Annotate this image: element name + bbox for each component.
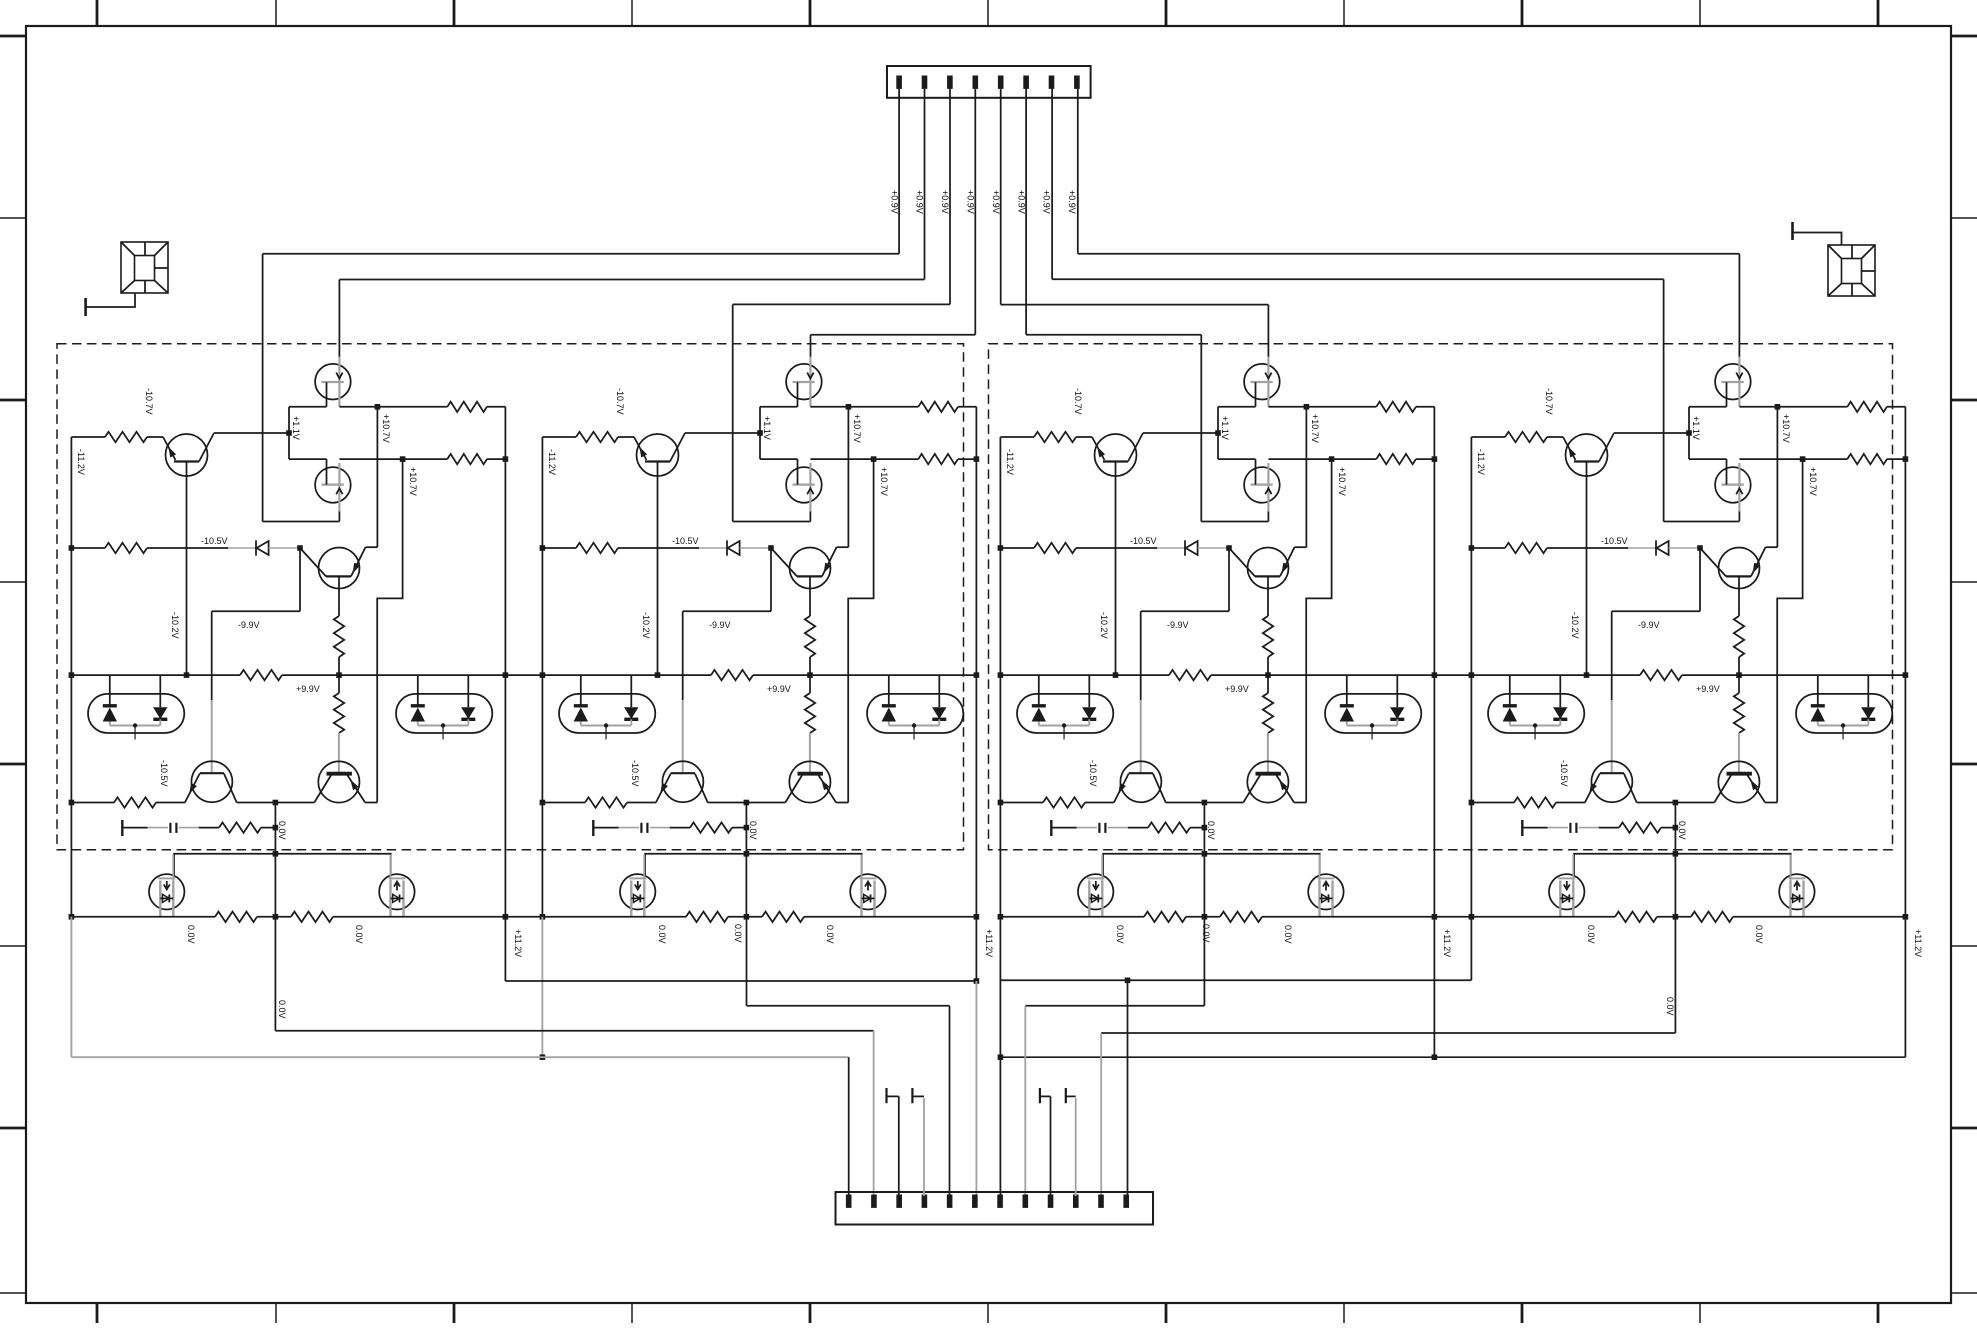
svg-text:0.0V: 0.0V: [354, 925, 364, 944]
terminal T1 block 4: [1521, 820, 1523, 836]
transistor Q2 block 1: [319, 548, 360, 589]
wire Q1 base -10.2V: [657, 462, 659, 676]
dual diode D3 block 1: [396, 694, 492, 733]
svg-text:+1.1V: +1.1V: [762, 416, 772, 440]
dual diode D3 block 4: [1796, 694, 1892, 733]
wire left bus -11.2V block 1: [70, 437, 72, 917]
wire row +9.9V block 1: [71, 674, 240, 676]
wire block1 bus drop: [70, 917, 72, 1057]
node +1.1V cell block 4: [1688, 407, 1690, 459]
wire Q2 base: [1738, 576, 1740, 616]
wire pad P1 stub: [86, 293, 135, 307]
jfet U2 block 4: [1715, 467, 1751, 503]
svg-text:0.0V: 0.0V: [1677, 821, 1687, 840]
svg-text:+10.7V: +10.7V: [381, 414, 391, 443]
mosfet M1 block 4: [1549, 874, 1584, 909]
wire 0.0V vertical block 3: [1203, 803, 1205, 917]
wire +10.7V branch B: [848, 459, 873, 802]
terminal T1 block 1: [121, 820, 123, 836]
wire block4 0.0V to pin11: [1674, 917, 1676, 1033]
wire Q3 base lead: [1611, 611, 1613, 700]
wire pin12 net: [1000, 979, 1471, 981]
wire Q1 collector to +1.1V node: [685, 432, 760, 434]
transistor Q4 block 2: [789, 761, 830, 802]
bond pad P2: [1828, 245, 1875, 296]
dual diode D3 block 2: [867, 694, 963, 733]
wire row lower bus block 1: [71, 916, 215, 918]
transistor Q2 block 4: [1719, 548, 1760, 589]
transistor Q3 block 4: [1591, 761, 1632, 802]
wire left bus -11.2V block 3: [999, 437, 1001, 917]
svg-text:-10.7V: -10.7V: [144, 388, 154, 415]
svg-text:-9.9V: -9.9V: [238, 620, 260, 630]
resistor R2 block 1: [71, 547, 105, 549]
resistor R10 block 4: [1615, 912, 1657, 922]
svg-text:-10.5V: -10.5V: [1559, 760, 1569, 787]
svg-text:+10.7V: +10.7V: [1310, 414, 1320, 443]
resistor R7 block 4: [1738, 675, 1740, 693]
pin 9 connector J2: [1048, 1195, 1054, 1208]
svg-text:0.0V: 0.0V: [657, 925, 667, 944]
diode D1 block 1: [255, 540, 257, 555]
wire Q2 base: [338, 576, 340, 616]
svg-text:0.0V: 0.0V: [1665, 997, 1675, 1016]
svg-text:-10.2V: -10.2V: [1570, 612, 1580, 639]
svg-text:-9.9V: -9.9V: [1638, 620, 1660, 630]
svg-text:-11.2V: -11.2V: [76, 449, 86, 475]
pin 5 connector J1: [998, 76, 1004, 89]
wire -9.9V node: [1228, 548, 1230, 611]
svg-text:+10.7V: +10.7V: [1808, 467, 1818, 496]
svg-text:0.0V: 0.0V: [1586, 925, 1596, 944]
resistor R6 block 1: [240, 670, 282, 680]
wire Q2 emitter to +10.7V: [1295, 546, 1307, 548]
wire -9.9V node: [1699, 548, 1701, 611]
wire +11.2V link: [504, 917, 506, 981]
wire Q2 base: [1267, 576, 1269, 616]
svg-text:+0.9V: +0.9V: [1067, 190, 1077, 214]
resistor R8 block 3: [1043, 797, 1085, 807]
svg-text:+10.7V: +10.7V: [852, 414, 862, 443]
svg-text:-10.5V: -10.5V: [159, 760, 169, 787]
resistor R8 block 2: [585, 797, 627, 807]
transistor Q3 block 2: [662, 761, 703, 802]
resistor R3 block 3: [1376, 402, 1416, 412]
resistor R1 block 3: [1000, 436, 1034, 438]
pin 8 connector J2: [1023, 1195, 1029, 1208]
wire row lower bus block 2: [542, 916, 686, 918]
jfet U2 block 2: [786, 467, 822, 503]
resistor R8 block 1: [114, 797, 156, 807]
terminal stub T3: [911, 1088, 913, 1103]
connector J1 (top): [887, 66, 1091, 98]
svg-text:+10.7V: +10.7V: [1337, 467, 1347, 496]
svg-text:0.0V: 0.0V: [825, 925, 835, 944]
dual diode D3 block 3: [1325, 694, 1421, 733]
wire Q3 base lead: [211, 611, 213, 700]
resistor R9 block 3: [1148, 822, 1190, 832]
svg-text:-10.5V: -10.5V: [630, 760, 640, 787]
svg-text:+9.9V: +9.9V: [296, 684, 320, 694]
mosfet M2 block 2: [850, 874, 885, 909]
jfet U1 block 4: [1715, 364, 1751, 400]
wire row lower bus block 3: [1000, 916, 1144, 918]
wire left bus -11.2V block 4: [1470, 437, 1472, 917]
svg-text:-10.7V: -10.7V: [1544, 388, 1554, 415]
pin 5 connector J2: [947, 1195, 953, 1208]
resistor R4 block 1: [447, 454, 487, 464]
terminal stub T2: [885, 1088, 887, 1103]
svg-text:+0.9V: +0.9V: [889, 190, 899, 214]
wire drain drop U1 block1: [338, 280, 340, 357]
svg-text:-10.5V: -10.5V: [1088, 760, 1098, 787]
wire drain drop U1 block4: [1738, 254, 1740, 357]
wire row lower filler: [1434, 916, 1471, 918]
svg-text:0.0V: 0.0V: [186, 925, 196, 944]
resistor R9 block 1: [219, 822, 261, 832]
wire drain drop U1 block2: [810, 335, 812, 357]
wire right bus to pin6: [975, 917, 977, 981]
svg-text:+9.9V: +9.9V: [1696, 684, 1720, 694]
svg-text:+1.1V: +1.1V: [1220, 416, 1230, 440]
wire gate feed pin 6: [1025, 89, 1027, 335]
wire ground rail left: [71, 1056, 848, 1058]
wire drain drop U1 block3: [1267, 305, 1269, 357]
transistor Q4 block 3: [1247, 761, 1288, 802]
wire Q1 collector to +1.1V node: [1143, 432, 1218, 434]
transistor Q1 block 3: [1095, 434, 1137, 476]
pin 4 connector J1: [973, 76, 979, 89]
wire rail to pin1: [848, 1057, 850, 1196]
terminal stub T4: [1039, 1088, 1041, 1103]
pin 3 connector J2: [896, 1195, 902, 1208]
resistor R7 block 3: [1267, 675, 1269, 693]
wire Q2 emitter to +10.7V: [1766, 546, 1778, 548]
resistor R6 block 4: [1640, 670, 1682, 680]
wire block2 0.0V to pin5: [746, 917, 748, 1006]
diode D1 block 3: [1184, 540, 1186, 555]
dashed enclosure group 2: [989, 344, 1893, 850]
svg-text:-10.2V: -10.2V: [170, 612, 180, 639]
terminal T1 block 2: [592, 820, 594, 836]
svg-text:+9.9V: +9.9V: [1225, 684, 1249, 694]
wire block3 bus drop to pin7: [999, 917, 1001, 1057]
wire gate feed pin 1: [898, 89, 900, 254]
pin 10 connector J2: [1073, 1195, 1079, 1208]
resistor R11 block 4: [1691, 912, 1733, 922]
mosfet M1 block 1: [149, 874, 184, 909]
dual diode D2 block 3: [1017, 694, 1113, 733]
svg-text:0.0V: 0.0V: [1201, 924, 1211, 943]
pin 1 connector J2: [846, 1195, 852, 1208]
resistor R9 block 4: [1619, 822, 1661, 832]
wire gate feed pin 2: [924, 89, 926, 280]
svg-text:-10.2V: -10.2V: [641, 612, 651, 639]
svg-text:+0.9V: +0.9V: [940, 190, 950, 214]
svg-text:0.0V: 0.0V: [1754, 925, 1764, 944]
dual diode D2 block 1: [88, 694, 184, 733]
resistor R7 block 1: [338, 675, 340, 693]
wire row +9.9V filler: [1434, 674, 1471, 676]
resistor R5 block 4: [1734, 616, 1744, 657]
pin 6 connector J1: [1023, 76, 1029, 89]
resistor R3 block 1: [447, 402, 487, 412]
wire gate feed pin 5: [1000, 89, 1002, 305]
wire 0.0V vertical block 1: [274, 803, 276, 917]
resistor R6 block 3: [1169, 670, 1211, 680]
svg-text:-11.2V: -11.2V: [1005, 449, 1015, 475]
wire pad P2 stub: [1793, 233, 1842, 246]
svg-text:+0.9V: +0.9V: [1042, 190, 1052, 214]
svg-text:-9.9V: -9.9V: [1167, 620, 1189, 630]
svg-text:-10.5V: -10.5V: [672, 536, 699, 546]
capacitor C1 block 1: [169, 823, 171, 833]
svg-text:-10.7V: -10.7V: [615, 388, 625, 415]
svg-text:+0.9V: +0.9V: [1016, 190, 1026, 214]
pin 12 connector J2: [1123, 1195, 1129, 1208]
resistor R10 block 1: [215, 912, 257, 922]
wire output loop block 3: [1103, 854, 1320, 875]
svg-text:-10.5V: -10.5V: [1130, 536, 1157, 546]
svg-text:+0.9V: +0.9V: [966, 190, 976, 214]
svg-text:+10.7V: +10.7V: [1781, 414, 1791, 443]
svg-text:0.0V: 0.0V: [277, 821, 287, 840]
wire +10.7V branch B: [377, 459, 402, 802]
wire output loop block 2: [645, 854, 862, 875]
node +1.1V cell block 1: [288, 407, 290, 459]
svg-text:+1.1V: +1.1V: [1691, 416, 1701, 440]
wire row 0.0V base block 1: [71, 802, 114, 804]
wire output loop block 4: [1574, 854, 1791, 875]
pin 4 connector J2: [922, 1195, 928, 1208]
resistor R4 block 2: [918, 454, 958, 464]
wire row +9.9V block 4: [1471, 674, 1640, 676]
svg-text:0.0V: 0.0V: [277, 1000, 287, 1019]
dual diode D2 block 2: [559, 694, 655, 733]
resistor R6 block 2: [711, 670, 753, 680]
wire row 0.0V base block 4: [1471, 802, 1514, 804]
wire left bus -11.2V block 2: [541, 437, 543, 917]
mosfet M2 block 3: [1308, 874, 1343, 909]
jfet U1 block 2: [786, 364, 822, 400]
diode D1 block 4: [1655, 540, 1657, 555]
resistor R5 block 3: [1263, 616, 1273, 657]
pin 8 connector J1: [1074, 76, 1080, 89]
transistor Q1 block 4: [1566, 434, 1608, 476]
wire row lower bus block 4: [1471, 916, 1615, 918]
wire drain drop U2 block3: [1200, 335, 1202, 522]
wire drain drop U2 block2: [732, 304, 734, 521]
wire output loop block 1: [174, 854, 391, 875]
resistor R1 block 2: [542, 436, 576, 438]
transistor Q2 block 3: [1248, 548, 1289, 589]
capacitor C1 block 2: [640, 823, 642, 833]
wire group2 right bus: [1904, 917, 1906, 1057]
mosfet M2 block 1: [379, 874, 414, 909]
wire Q3 base lead: [682, 611, 684, 700]
transistor Q1 block 2: [637, 434, 679, 476]
wire block4 bus drop: [1470, 917, 1472, 981]
wire gate feed pin 3: [949, 89, 951, 305]
pin 2 connector J1: [922, 76, 928, 89]
svg-text:+0.9V: +0.9V: [991, 190, 1001, 214]
transistor Q2 block 2: [790, 548, 831, 589]
wire -9.9V node: [299, 548, 301, 611]
wire ground rail right: [1000, 1056, 1905, 1058]
svg-text:+1.1V: +1.1V: [291, 416, 301, 440]
wire Q1 base -10.2V: [1115, 462, 1117, 676]
wire block3 0.0V to pin8: [1203, 917, 1205, 1006]
wire right rail vertical block 3: [1433, 407, 1435, 917]
resistor R10 block 2: [686, 912, 728, 922]
pin 2 connector J2: [871, 1195, 877, 1208]
wire gate feed pin 7: [1051, 89, 1053, 279]
svg-text:+0.9V: +0.9V: [915, 190, 925, 214]
diode D1 block 2: [726, 540, 728, 555]
wire drain drop U2 block1: [262, 254, 264, 522]
jfet U1 block 3: [1244, 364, 1280, 400]
resistor R3 block 4: [1847, 402, 1887, 412]
wire block2 bus drop: [541, 917, 543, 1057]
wire row 0.0V base block 2: [542, 802, 585, 804]
wire Q2 base: [809, 576, 811, 616]
pin 6 connector J2: [972, 1195, 978, 1208]
wire Q2 emitter to +10.7V: [837, 546, 849, 548]
transistor Q1 block 1: [166, 434, 208, 476]
resistor R2 block 3: [1000, 547, 1034, 549]
svg-text:0.0V: 0.0V: [1283, 925, 1293, 944]
pin 3 connector J1: [947, 76, 953, 89]
wire right bus drop: [1433, 917, 1435, 1057]
svg-text:+9.9V: +9.9V: [767, 684, 791, 694]
wire right rail vertical block 2: [975, 407, 977, 917]
resistor R3 block 2: [918, 402, 958, 412]
mosfet M2 block 4: [1779, 874, 1814, 909]
resistor R9 block 2: [690, 822, 732, 832]
node +1.1V cell block 3: [1217, 407, 1219, 459]
svg-text:-11.2V: -11.2V: [547, 449, 557, 475]
wire row lower filler: [505, 916, 542, 918]
svg-text:-10.2V: -10.2V: [1099, 612, 1109, 639]
svg-text:+10.7V: +10.7V: [879, 467, 889, 496]
capacitor C1 block 3: [1098, 823, 1100, 833]
jfet U1 block 1: [315, 364, 351, 400]
resistor R4 block 3: [1376, 454, 1416, 464]
wire Q1 collector to +1.1V node: [214, 432, 289, 434]
bond pad P1: [121, 242, 168, 293]
wire Q3 base lead: [1140, 611, 1142, 700]
resistor R11 block 3: [1220, 912, 1262, 922]
wire block1 0.0V to pin2: [274, 917, 276, 1031]
resistor R2 block 2: [542, 547, 576, 549]
pin 11 connector J2: [1098, 1195, 1104, 1208]
dual diode D2 block 4: [1488, 694, 1584, 733]
svg-text:0.0V: 0.0V: [748, 821, 758, 840]
wire Q1 base -10.2V: [186, 462, 188, 676]
svg-text:-10.5V: -10.5V: [1601, 536, 1628, 546]
jfet U2 block 3: [1244, 467, 1280, 503]
svg-text:0.0V: 0.0V: [1206, 821, 1216, 840]
connector J2 (bottom): [836, 1192, 1154, 1225]
wire 0.0V vertical block 4: [1674, 803, 1676, 917]
wire drain drop U2 block4: [1663, 279, 1665, 521]
wire right rail vertical block 1: [504, 407, 506, 917]
wire -9.9V node: [770, 548, 772, 611]
transistor Q4 block 4: [1718, 761, 1759, 802]
dashed enclosure group 1: [57, 344, 964, 850]
svg-text:+10.7V: +10.7V: [408, 467, 418, 496]
svg-text:+11.2V: +11.2V: [984, 929, 994, 957]
jfet U2 block 1: [315, 467, 351, 503]
svg-text:+11.2V: +11.2V: [1913, 929, 1923, 957]
wire gate feed pin 4: [974, 89, 976, 335]
wire row +9.9V filler: [505, 674, 542, 676]
resistor R11 block 1: [291, 912, 333, 922]
mosfet M1 block 2: [620, 874, 655, 909]
wire gate feed pin 8: [1077, 89, 1079, 254]
svg-text:-11.2V: -11.2V: [1476, 449, 1486, 475]
node +1.1V cell block 2: [759, 407, 761, 459]
wire Q1 collector to +1.1V node: [1614, 432, 1689, 434]
svg-text:-9.9V: -9.9V: [709, 620, 731, 630]
wire Q2 emitter to +10.7V: [366, 546, 378, 548]
wire row +9.9V block 3: [1000, 674, 1169, 676]
svg-text:0.0V: 0.0V: [1115, 925, 1125, 944]
wire 0.0V vertical block 2: [745, 803, 747, 917]
pin 7 connector J1: [1049, 76, 1055, 89]
svg-text:+11.2V: +11.2V: [513, 929, 523, 957]
pin 7 connector J2: [997, 1195, 1003, 1208]
wire row +9.9V block 2: [542, 674, 711, 676]
wire +10.7V branch B: [1777, 459, 1802, 802]
svg-text:-10.5V: -10.5V: [201, 536, 228, 546]
resistor R4 block 4: [1847, 454, 1887, 464]
wire Q1 base -10.2V: [1586, 462, 1588, 676]
wire row 0.0V base block 3: [1000, 802, 1043, 804]
resistor R5 block 2: [805, 616, 815, 657]
resistor R10 block 3: [1144, 912, 1186, 922]
mosfet M1 block 3: [1078, 874, 1113, 909]
terminal stub T5: [1065, 1088, 1067, 1103]
terminal T1 block 3: [1050, 820, 1052, 836]
resistor R1 block 1: [71, 436, 105, 438]
transistor Q3 block 3: [1120, 761, 1161, 802]
resistor R5 block 1: [334, 616, 344, 657]
wire +10.7V branch B: [1306, 459, 1331, 802]
resistor R7 block 2: [809, 675, 811, 693]
wire right rail vertical block 4: [1904, 407, 1906, 917]
resistor R11 block 2: [762, 912, 804, 922]
svg-text:+11.2V: +11.2V: [1442, 929, 1452, 957]
svg-text:-10.7V: -10.7V: [1073, 388, 1083, 415]
capacitor C1 block 4: [1569, 823, 1571, 833]
resistor R8 block 4: [1514, 797, 1556, 807]
svg-text:0.0V: 0.0V: [733, 924, 743, 943]
pin 1 connector J1: [896, 76, 902, 89]
transistor Q3 block 1: [191, 761, 232, 802]
resistor R1 block 4: [1471, 436, 1505, 438]
resistor R2 block 4: [1471, 547, 1505, 549]
transistor Q4 block 1: [318, 761, 359, 802]
